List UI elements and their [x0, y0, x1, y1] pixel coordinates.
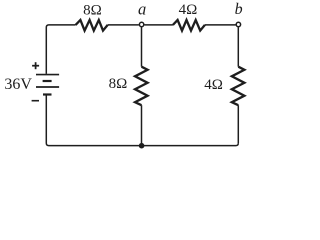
svg-text:8Ω: 8Ω: [109, 76, 128, 92]
svg-text:4Ω: 4Ω: [179, 2, 198, 18]
svg-text:4Ω: 4Ω: [204, 77, 223, 93]
svg-text:8Ω: 8Ω: [83, 2, 102, 18]
svg-text:b: b: [235, 1, 243, 18]
svg-text:a: a: [138, 0, 146, 19]
svg-text:36V: 36V: [4, 76, 32, 93]
